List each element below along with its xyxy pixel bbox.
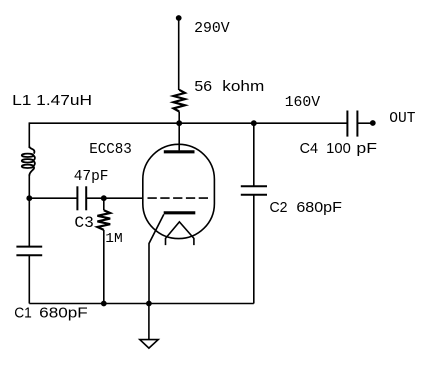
svg-text:pF: pF	[356, 141, 377, 157]
svg-text:56: 56	[194, 79, 212, 95]
wire C4 to OUT	[357, 122, 371, 124]
node C2 top junction	[251, 120, 257, 126]
node grid junction	[101, 195, 107, 201]
resistor R2 1M	[97, 210, 110, 230]
node 290V supply terminal	[176, 15, 182, 21]
wire ground stem	[148, 304, 150, 340]
wire plate lead	[178, 123, 180, 150]
node grid rail left junction	[26, 195, 32, 201]
tube U1 cathode	[164, 211, 196, 214]
svg-text:290V: 290V	[194, 19, 230, 37]
capacitor C3 47pF	[76, 186, 78, 210]
svg-text:100: 100	[326, 141, 351, 157]
svg-text:47pF: 47pF	[74, 167, 109, 185]
capacitor C4 100 pF	[346, 111, 348, 137]
svg-text:C3: C3	[74, 214, 94, 232]
node OUT terminal	[370, 120, 376, 126]
svg-text:160V: 160V	[285, 93, 321, 111]
wire C3 to grid node	[86, 197, 143, 199]
svg-text:C1: C1	[14, 306, 32, 322]
wire main horizontal plate rail	[29, 122, 347, 124]
svg-text:1M: 1M	[105, 232, 122, 247]
wire left rail lower	[28, 175, 30, 247]
svg-text:680pF: 680pF	[296, 200, 342, 216]
wire R1 to plate node	[178, 112, 180, 124]
resistor R1 56 kohm	[174, 90, 185, 112]
wire C2 bottom lead	[253, 195, 255, 304]
inductor L1	[22, 146, 35, 176]
svg-text:OUT: OUT	[389, 111, 415, 127]
wire C1 to ground rail	[28, 255, 30, 303]
wire R2 to ground rail	[103, 230, 105, 304]
svg-text:L1 1.47uH: L1 1.47uH	[12, 93, 92, 109]
wire supply to R1	[178, 18, 180, 90]
ground	[140, 340, 158, 349]
capacitor C1 680pF	[16, 246, 42, 248]
node cathode ground junction	[146, 301, 152, 307]
svg-text:ECC83: ECC83	[89, 140, 132, 158]
svg-text:C4: C4	[300, 141, 318, 157]
tube U1 grid dashed	[148, 197, 210, 199]
wire left rail upper	[28, 122, 30, 148]
tube U1 heater	[166, 222, 194, 245]
node plate junction	[176, 120, 182, 126]
tube U1 ECC83 envelope	[143, 144, 215, 238]
node R2 ground junction	[101, 301, 107, 307]
svg-text:C2: C2	[270, 200, 288, 216]
wire cathode lead	[149, 214, 164, 303]
wire C2 top lead	[253, 123, 255, 186]
svg-text:kohm: kohm	[222, 79, 264, 95]
svg-text:680pF: 680pF	[39, 306, 88, 322]
tube U1 plate	[164, 150, 195, 153]
wire grid node to R2	[103, 198, 105, 210]
wire ground rail	[29, 303, 254, 305]
wire grid rail to C3	[29, 197, 77, 199]
capacitor C2 680pF	[241, 185, 267, 187]
